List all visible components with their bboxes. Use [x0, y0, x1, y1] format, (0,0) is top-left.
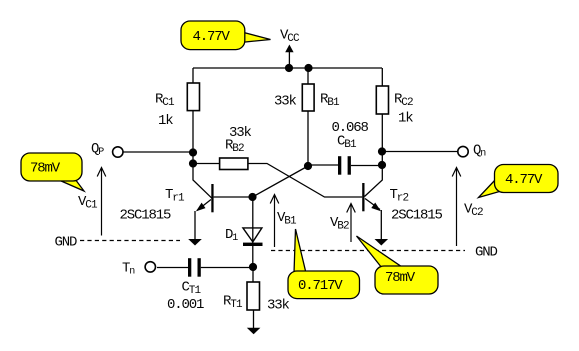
wire Qn lead — [382, 151, 458, 153]
svg-text:2SC1815: 2SC1815 — [120, 208, 172, 224]
capacitor CT1 — [188, 258, 201, 277]
callout balloon 78mV right — [357, 236, 439, 294]
wire cross-coupling diagonal to RB1 node — [253, 166, 309, 197]
callout balloon 4.77V right — [479, 165, 559, 198]
callout balloon 0.717V — [288, 229, 360, 299]
node RB2 left — [189, 159, 197, 167]
svg-text:1k: 1k — [398, 111, 413, 127]
callout balloon 4.77V top — [181, 21, 271, 50]
svg-text:GND: GND — [475, 245, 498, 261]
transistor Q1 emitter arrowhead — [196, 203, 206, 212]
ground arrow Tr1 emitter — [188, 239, 202, 246]
node RB1 top junction — [304, 64, 312, 72]
wire Tn to CT1 — [157, 267, 188, 269]
wire CB1 right lead — [351, 165, 382, 167]
wire Qp lead — [123, 151, 193, 153]
resistor RC2 — [376, 86, 388, 114]
svg-text:0.717V: 0.717V — [298, 278, 343, 294]
svg-text:78mV: 78mV — [30, 161, 61, 177]
wire Tr1 emitter to ground — [195, 200, 211, 240]
wire RB2 right lead to Tr2 base — [247, 164, 362, 198]
wire RB1 branch — [307, 68, 309, 166]
callout balloon 78mV left — [21, 153, 84, 191]
svg-text:4.77V: 4.77V — [193, 29, 231, 45]
wire Vcc stem — [288, 52, 290, 68]
transistor Q2 bar — [362, 183, 364, 211]
ground arrow RT1 — [247, 328, 261, 335]
wire CT1 to node — [201, 267, 253, 269]
svg-text:78mV: 78mV — [385, 270, 416, 286]
wire RT1 leads — [252, 267, 255, 328]
junction dots — [189, 64, 386, 271]
resistor RC1 — [187, 83, 199, 111]
resistor RB2 — [220, 158, 248, 170]
svg-text:2SC1815: 2SC1815 — [391, 208, 443, 224]
svg-text:GND: GND — [55, 235, 78, 251]
capacitor CB1 — [338, 156, 351, 175]
measurement arrow VC1 — [97, 168, 106, 236]
terminal Tn — [145, 262, 155, 272]
node Qn — [378, 147, 386, 155]
wire Tr2 emitter to ground — [365, 199, 381, 240]
svg-text:33k: 33k — [229, 125, 252, 141]
node Tr1 base / D1 — [248, 193, 256, 201]
resistor RT1 — [247, 282, 260, 310]
measurement arrow VC2 — [452, 168, 461, 247]
wire right collector branch — [365, 68, 383, 197]
svg-text:33k: 33k — [274, 94, 297, 110]
svg-text:33k: 33k — [267, 298, 290, 314]
ground dashed line left — [80, 240, 180, 242]
transistor Q1 bar — [211, 184, 213, 212]
wire D1 branch — [252, 197, 254, 267]
wire Tr1 base lead — [214, 196, 253, 198]
svg-text:4.77V: 4.77V — [505, 172, 543, 188]
node trigger CT1/D1/RT1 — [249, 263, 257, 271]
terminal Qp — [113, 147, 123, 157]
ground arrow Tr2 emitter — [375, 239, 389, 246]
transistor Q2 emitter arrowhead — [371, 203, 381, 212]
node CB1 right — [378, 161, 386, 169]
ground dashed line right — [271, 250, 465, 252]
diode D1 — [243, 228, 262, 242]
measurement arrow VB2 — [347, 204, 356, 243]
wire left collector branch — [193, 68, 212, 198]
wire CB1 left lead — [308, 164, 338, 166]
wire Vcc rail — [193, 67, 382, 69]
resistor RB1 — [302, 84, 314, 111]
measurement arrow VB1 — [270, 195, 279, 248]
wire RB2 left lead — [193, 163, 219, 165]
svg-text:0.001: 0.001 — [167, 297, 204, 313]
node Vcc arrow junction — [285, 64, 293, 72]
node Qp — [189, 148, 197, 156]
node RB1 bottom — [304, 162, 312, 170]
power Vcc arrow — [285, 45, 293, 53]
svg-text:1k: 1k — [158, 113, 173, 129]
terminal Qn — [458, 146, 468, 156]
